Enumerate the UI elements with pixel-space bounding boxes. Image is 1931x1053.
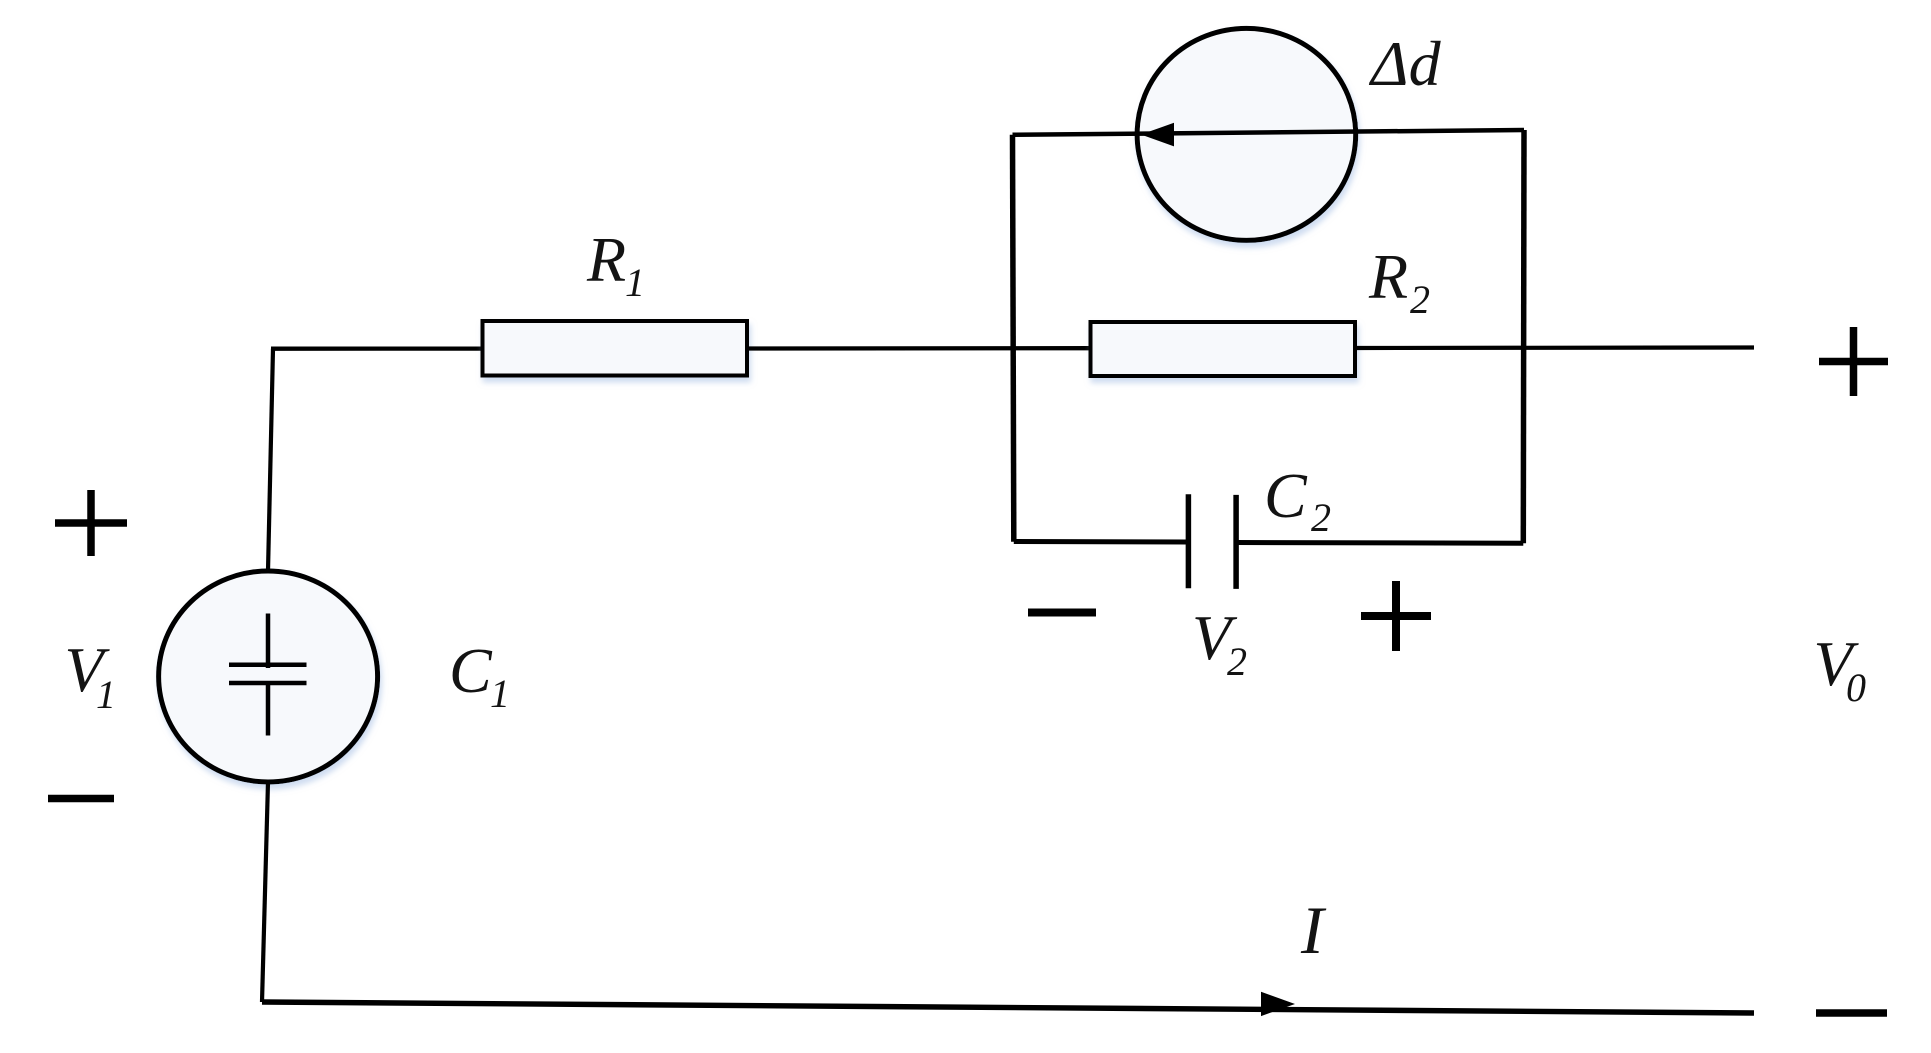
voltage source V1 circle (capacitive sensor) bbox=[159, 571, 378, 782]
svg-text:2: 2 bbox=[1311, 495, 1331, 540]
capacitor C2 left plate bbox=[1186, 494, 1192, 588]
capacitor C2 right plate bbox=[1233, 495, 1239, 589]
wire left branch vertical bbox=[1013, 135, 1014, 542]
polarity + of V2 bbox=[1361, 581, 1431, 651]
svg-text:1: 1 bbox=[625, 260, 645, 305]
wire from R2 to output + bbox=[1355, 345, 1754, 350]
output + terminal bbox=[1819, 327, 1888, 396]
label V2 bbox=[1192, 602, 1247, 684]
resistor R1 bbox=[483, 321, 748, 376]
label C2 bbox=[1264, 460, 1331, 540]
label R2 bbox=[1368, 241, 1430, 322]
label C1 bbox=[449, 635, 510, 716]
polarity - of V2 bbox=[1028, 609, 1096, 617]
svg-text:1: 1 bbox=[96, 672, 116, 717]
sensor capacitor inside V1: bottom plate bbox=[229, 681, 307, 686]
label R1 bbox=[586, 224, 645, 305]
polarity - of V1 bbox=[48, 795, 114, 803]
wire from V1 bottom to bottom rail bbox=[262, 782, 268, 1002]
svg-text:0: 0 bbox=[1846, 665, 1866, 710]
svg-text:C: C bbox=[449, 635, 493, 706]
wire right branch vertical bbox=[1521, 130, 1527, 543]
svg-text:1: 1 bbox=[490, 671, 510, 716]
label V1 bbox=[65, 634, 117, 717]
label V0 bbox=[1814, 628, 1867, 710]
wire C2 branch left bbox=[1014, 539, 1188, 545]
svg-text:I: I bbox=[1300, 892, 1327, 968]
wire top loop through Δd source bbox=[1013, 130, 1525, 135]
wire from V1 top to R1 left corner bbox=[268, 349, 483, 571]
arrow of Δd source (pointing left) bbox=[1141, 123, 1174, 147]
wire from R1 to R2 bbox=[747, 346, 1091, 351]
output - terminal bbox=[1816, 1009, 1887, 1017]
svg-text:C: C bbox=[1264, 460, 1308, 531]
current source Δd circle bbox=[1137, 28, 1356, 240]
sensor capacitor inside V1: top plate bbox=[229, 663, 307, 668]
sensor capacitor inside V1: top lead bbox=[266, 614, 271, 669]
sensor capacitor inside V1: bottom lead bbox=[266, 683, 271, 736]
svg-text:2: 2 bbox=[1410, 277, 1430, 322]
current arrow I bbox=[1261, 992, 1295, 1016]
svg-text:R: R bbox=[1368, 241, 1408, 312]
bottom rail wire bbox=[262, 1002, 1754, 1013]
resistor R2 bbox=[1091, 322, 1356, 376]
wire C2 branch right bbox=[1236, 540, 1523, 546]
svg-text:2: 2 bbox=[1227, 639, 1247, 684]
svg-text:Δd: Δd bbox=[1368, 28, 1442, 99]
polarity + of V1 bbox=[55, 490, 127, 556]
svg-text:R: R bbox=[586, 224, 626, 295]
